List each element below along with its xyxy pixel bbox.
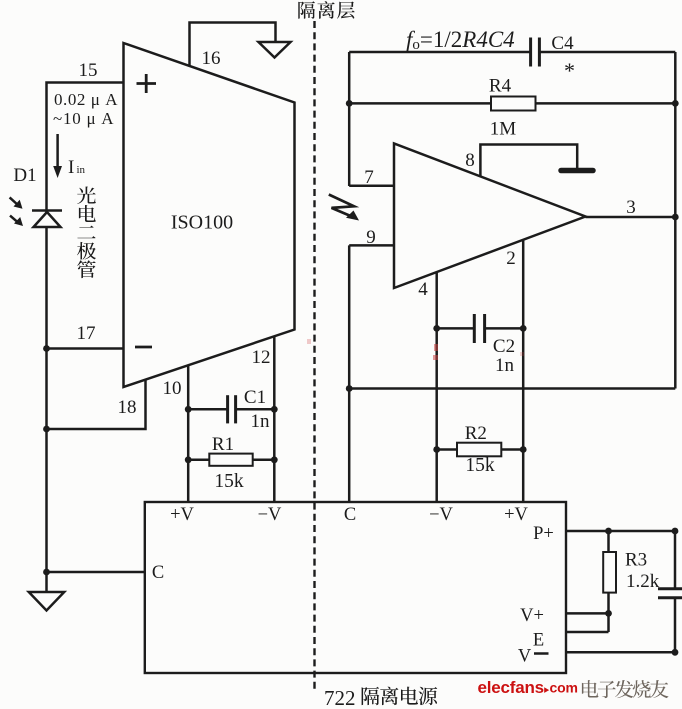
svg-text:−V: −V xyxy=(429,505,453,525)
svg-text:+V: +V xyxy=(504,505,528,525)
svg-text:elecfans: elecfans xyxy=(478,678,544,697)
svg-text:15k: 15k xyxy=(465,455,495,476)
svg-text:1M: 1M xyxy=(490,119,517,140)
svg-text:3: 3 xyxy=(626,197,636,218)
svg-text:18: 18 xyxy=(118,397,137,418)
svg-text:R4: R4 xyxy=(489,76,512,97)
svg-text:10: 10 xyxy=(163,378,182,399)
svg-text:2: 2 xyxy=(506,248,516,269)
svg-text:com: com xyxy=(550,680,578,696)
svg-text:17: 17 xyxy=(77,323,96,344)
svg-text:4: 4 xyxy=(418,279,428,300)
svg-text:0.02 μ A: 0.02 μ A xyxy=(54,90,118,109)
svg-text:E: E xyxy=(533,631,544,651)
svg-text:D1: D1 xyxy=(13,165,36,186)
svg-text:7: 7 xyxy=(364,167,374,188)
svg-text:P+: P+ xyxy=(533,524,554,544)
svg-text:*: * xyxy=(564,58,575,83)
svg-text:C4: C4 xyxy=(551,33,574,54)
svg-text:+V: +V xyxy=(170,505,194,525)
svg-text:15k: 15k xyxy=(214,471,244,492)
svg-text:R3: R3 xyxy=(625,550,647,571)
svg-text:V: V xyxy=(518,647,532,667)
svg-text:12: 12 xyxy=(252,347,271,368)
svg-text:C: C xyxy=(152,563,164,583)
svg-text:C1: C1 xyxy=(244,387,266,408)
svg-text:in: in xyxy=(77,164,86,176)
svg-text:ISO100: ISO100 xyxy=(171,212,233,234)
svg-text:8: 8 xyxy=(465,150,475,171)
svg-text:15: 15 xyxy=(79,60,98,81)
svg-text:−V: −V xyxy=(258,505,282,525)
svg-text:V+: V+ xyxy=(520,606,544,626)
svg-text:9: 9 xyxy=(366,227,376,248)
svg-text:1.2k: 1.2k xyxy=(626,571,660,592)
svg-text:16: 16 xyxy=(202,48,221,69)
svg-text:1n: 1n xyxy=(251,411,271,432)
svg-text:fo=1/2R4C4: fo=1/2R4C4 xyxy=(406,27,515,53)
svg-text:R2: R2 xyxy=(465,423,487,444)
svg-text:C2: C2 xyxy=(493,336,515,357)
svg-text:1n: 1n xyxy=(495,355,515,376)
svg-text:722: 722 xyxy=(324,686,356,709)
svg-text:C: C xyxy=(344,505,356,525)
svg-text:R1: R1 xyxy=(212,434,234,455)
svg-text:~10 μ A: ~10 μ A xyxy=(53,109,114,128)
svg-text:I: I xyxy=(68,157,74,178)
